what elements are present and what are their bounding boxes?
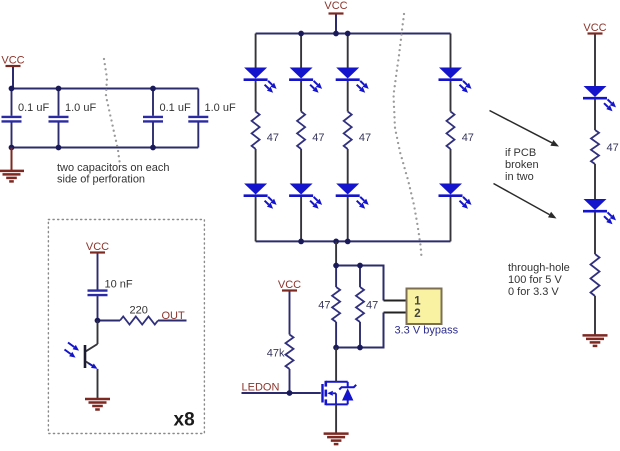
annotation arrow lower (if PCB broken) [494, 184, 550, 215]
LED column 4 bottom [439, 184, 472, 209]
svg-text:1.0 uF: 1.0 uF [65, 102, 96, 114]
junction dots (LED array bottom rail) [298, 239, 350, 245]
resistor 47 column 4 [447, 112, 474, 150]
wire column 2 lower [300, 197, 302, 242]
LED column 1 top [244, 68, 277, 93]
wire right column 3 [594, 212, 596, 254]
wire column 3 mid-lower [347, 149, 349, 184]
junction dots (capacitor bank) [9, 86, 156, 151]
svg-text:0.1 uF: 0.1 uF [160, 102, 191, 114]
svg-text:47: 47 [312, 132, 324, 144]
svg-text:through-hole: through-hole [508, 262, 570, 274]
wire column 1 mid-lower [255, 149, 257, 184]
wire right column 4 [594, 296, 596, 335]
svg-text:VCC: VCC [1, 55, 24, 67]
svg-text:47: 47 [462, 132, 474, 144]
power symbol VCC (LED array) [324, 0, 347, 34]
power symbol VCC (broken-off column) [583, 22, 606, 86]
svg-text:two capacitors on each: two capacitors on each [57, 162, 170, 174]
wire column 2 upper [300, 34, 302, 68]
dotted box (x8 sensor cell) [48, 220, 204, 434]
svg-text:VCC: VCC [86, 241, 109, 253]
wire to jumper pin 2 [384, 313, 407, 349]
MOSFET N-channel with zener body diode [323, 381, 357, 405]
svg-text:47k: 47k [267, 348, 285, 360]
resistor through-hole (100 or 0 ohm) [591, 254, 600, 296]
phototransistor [65, 321, 98, 399]
svg-text:x8: x8 [174, 410, 195, 431]
wire top rail (capacitor bank) [12, 88, 199, 90]
wire right column 2 [594, 164, 596, 199]
capacitor 10 nF [88, 279, 133, 296]
resistor 220 (output series) [120, 305, 158, 325]
svg-text:VCC: VCC [324, 0, 347, 12]
svg-text:220: 220 [130, 305, 148, 317]
capacitor C4 1.0 uF [188, 89, 236, 148]
capacitor C1 0.1 uF [2, 89, 50, 148]
LED right column top [583, 86, 616, 111]
power symbol VCC (sensor cell) [86, 241, 109, 290]
svg-text:47: 47 [607, 142, 619, 154]
svg-text:10 nF: 10 nF [105, 279, 133, 291]
resistor 47 column 2 [297, 112, 324, 150]
resistor 47 right column [591, 130, 619, 164]
wire column 1 mid-upper [255, 81, 257, 112]
resistor 47k pull-up [267, 335, 294, 370]
wire cap to node [97, 296, 99, 320]
wire 47k to LEDON net [289, 369, 291, 393]
wire column 4 lower [450, 197, 452, 242]
wire right column 1 [594, 99, 596, 130]
note: through-hole resistor value [508, 262, 570, 298]
svg-text:in two: in two [505, 171, 534, 183]
resistor 47 column 1 [252, 112, 279, 150]
power symbol VCC (LEDON pull-up) [278, 279, 301, 335]
perforation dotted line (left) [103, 58, 121, 163]
annotation arrow upper (if PCB broken) [490, 111, 552, 143]
junction dot LEDON [287, 390, 293, 396]
ground (MOSFET source) [324, 434, 349, 445]
svg-text:47: 47 [318, 300, 330, 312]
resistor 47 (current set, left) [318, 266, 340, 348]
svg-text:side of perforation: side of perforation [57, 174, 145, 186]
svg-text:1.0 uF: 1.0 uF [205, 102, 236, 114]
wire column 3 upper [347, 34, 349, 68]
resistor 47 column 3 [344, 112, 371, 150]
note: two capacitors on each side of perforation [57, 162, 170, 186]
resistor 47 (current set, right) [356, 266, 378, 348]
wire source to ground [335, 404, 337, 433]
svg-text:OUT: OUT [162, 310, 186, 322]
wire column 1 upper [255, 34, 257, 68]
svg-text:VCC: VCC [278, 279, 301, 291]
LED column 1 bottom [244, 184, 277, 209]
wire bottom rail (LED array) [256, 240, 451, 242]
perforation dotted line (right, S-curve) [392, 13, 422, 256]
jumper 3.3 V bypass (yellow box) [407, 289, 442, 325]
svg-text:LEDON: LEDON [242, 382, 280, 394]
LED column 3 top [336, 68, 369, 93]
svg-text:if PCB: if PCB [505, 147, 536, 159]
wire column 3 mid-upper [347, 81, 349, 112]
svg-text:1: 1 [414, 296, 421, 308]
ground (sensor cell) [85, 399, 110, 410]
power symbol VCC (capacitor bank) [1, 55, 24, 89]
wire column 2 mid-lower [300, 149, 302, 184]
svg-text:47: 47 [359, 132, 371, 144]
wire to jumper pin 1 [384, 265, 407, 301]
junction dots (LED array top rail) [298, 31, 350, 37]
svg-text:broken: broken [505, 159, 539, 171]
wire column 3 lower [347, 197, 349, 242]
wire column 4 mid-lower [450, 149, 452, 184]
junction dots (resistor pair rails) [333, 263, 363, 351]
svg-text:47: 47 [267, 132, 279, 144]
wire LEDON to gate [242, 392, 321, 394]
wire column 4 mid-upper [450, 81, 452, 112]
wire bottom mini-rail (resistor pair) [336, 347, 383, 349]
wire node to resistor 220 [98, 320, 121, 322]
LED column 2 top [289, 68, 322, 93]
ground (broken-off column) [583, 335, 608, 346]
capacitor C3 0.1 uF [143, 89, 191, 148]
svg-text:2: 2 [414, 308, 420, 320]
wire column 2 mid-upper [300, 81, 302, 112]
wire column 1 lower [255, 197, 257, 242]
wire column 4 upper [450, 34, 452, 68]
LED column 2 bottom [289, 184, 322, 209]
ground (capacitor bank) [0, 148, 24, 182]
LED column 4 top [439, 68, 472, 93]
svg-text:3.3 V bypass: 3.3 V bypass [395, 325, 459, 337]
wire top rail (LED array) [256, 33, 451, 35]
wire top mini-rail (resistor pair) [336, 265, 383, 267]
svg-text:VCC: VCC [583, 22, 606, 34]
capacitor C2 1.0 uF [49, 89, 97, 148]
junction dot (sensor node) [95, 318, 101, 324]
wire resistor to OUT [158, 320, 187, 322]
wire drain up to resistor pair [335, 348, 337, 382]
wire array to resistor pair [335, 241, 337, 265]
note: if PCB broken in two [505, 147, 539, 183]
LED right column bottom [583, 199, 616, 224]
svg-text:0.1 uF: 0.1 uF [18, 102, 49, 114]
svg-text:47: 47 [366, 300, 378, 312]
svg-text:100 for 5 V: 100 for 5 V [508, 274, 562, 286]
wire bottom rail (capacitor bank) [12, 147, 199, 149]
svg-text:0 for 3.3 V: 0 for 3.3 V [508, 286, 559, 298]
LED column 3 bottom [336, 184, 369, 209]
